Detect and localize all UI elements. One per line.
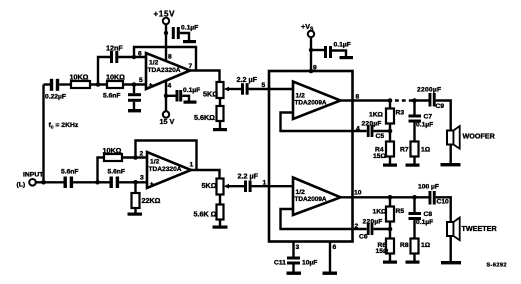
wire to pin 5 — [123, 83, 146, 85]
ground (C11) — [287, 272, 302, 275]
svg-text:5KΩ: 5KΩ — [202, 181, 217, 190]
svg-text:5.6nF: 5.6nF — [108, 169, 125, 176]
svg-text:TDA2009A: TDA2009A — [295, 196, 327, 203]
svg-text:1/2: 1/2 — [150, 159, 160, 166]
svg-text:9: 9 — [313, 65, 317, 72]
ground (22K) — [128, 213, 143, 216]
wire U2b output pin 10 — [341, 196, 429, 198]
junction dot pin3 node — [133, 180, 138, 185]
junction dot pin5 node — [132, 82, 137, 87]
wire output rail to C9 — [411, 99, 429, 101]
wire feedback U1b output to pin 2 — [136, 141, 197, 171]
svg-text:0.1µF: 0.1µF — [183, 87, 200, 94]
svg-text:1/2: 1/2 — [296, 93, 306, 100]
ground (R4) — [383, 164, 397, 167]
svg-text:5KΩ: 5KΩ — [203, 90, 218, 99]
svg-text:5.6nF: 5.6nF — [103, 93, 120, 100]
input terminal INPUT (L) — [17, 172, 45, 189]
ground (top-left bypass) — [183, 40, 196, 43]
svg-text:3: 3 — [140, 175, 144, 182]
junction dot on +15V rail — [164, 31, 168, 35]
svg-text:15 V: 15 V — [160, 117, 175, 126]
ground (woofer divider) — [213, 128, 227, 131]
ground (pin4 bypass) — [184, 101, 197, 104]
svg-text:3: 3 — [296, 244, 300, 251]
capacitor 12nF (low-pass feedback) — [98, 44, 146, 85]
wire U2a feedback to pin 4 — [281, 113, 367, 132]
svg-text:5: 5 — [262, 82, 266, 89]
resistor 10K (high-pass feedback) — [98, 146, 148, 182]
svg-text:1/2: 1/2 — [149, 60, 159, 67]
wire pin 3 to C11 — [292, 242, 294, 257]
resistor R7 1 ohm — [400, 142, 431, 164]
svg-text:8: 8 — [356, 94, 360, 101]
svg-text:R8: R8 — [400, 242, 409, 249]
junction dot pin 9 — [309, 69, 314, 74]
wire pin1 input to U2b — [269, 185, 293, 187]
svg-text:C7: C7 — [424, 114, 433, 121]
svg-text:S-6292: S-6292 — [487, 263, 507, 269]
wire tweeter to ground — [450, 236, 452, 261]
svg-text:WOOFER: WOOFER — [463, 132, 496, 141]
svg-text:0.1µF: 0.1µF — [181, 25, 198, 32]
svg-text:INPUT: INPUT — [23, 172, 44, 179]
svg-text:10µF: 10µF — [302, 260, 317, 267]
junction dot feedback node (tweeter) — [388, 227, 393, 232]
svg-text:1Ω: 1Ω — [421, 242, 431, 249]
capacitor C10 100uF — [418, 184, 449, 206]
wire dashed segment (output rail) — [395, 99, 412, 101]
svg-text:C11: C11 — [274, 260, 286, 267]
svg-text:2: 2 — [355, 223, 359, 230]
potentiometer 5K (woofer level) — [203, 82, 241, 99]
junction dot feedback node — [388, 129, 393, 134]
svg-text:5.6KΩ: 5.6KΩ — [194, 113, 215, 122]
ground (R7) — [406, 164, 420, 167]
svg-text:1: 1 — [190, 162, 194, 169]
ground (tweeter divider) — [213, 226, 228, 229]
wire U1 output to pot — [190, 71, 220, 83]
svg-text:C6: C6 — [359, 234, 368, 241]
resistor R3 1K — [369, 101, 404, 142]
svg-text:2.2 µF: 2.2 µF — [238, 172, 259, 181]
svg-text:1KΩ: 1KΩ — [369, 112, 384, 119]
supply terminal +15V — [154, 10, 176, 25]
junction dot input rail — [41, 180, 46, 185]
wire C10 to tweeter — [436, 197, 451, 222]
capacitor 0.22uF — [44, 79, 66, 101]
wire feedback U1 output to pin 6 — [134, 47, 196, 71]
op-amp U1 1/2 TDA2320A (low-pass) — [146, 53, 190, 89]
svg-text:2200µF: 2200µF — [417, 87, 441, 94]
supply terminal +Vs — [301, 22, 314, 37]
svg-text:100 µF: 100 µF — [418, 184, 439, 191]
svg-text:1Ω: 1Ω — [421, 147, 431, 154]
svg-text:C10: C10 — [437, 199, 450, 206]
svg-text:C9: C9 — [436, 103, 445, 110]
svg-text:1/2: 1/2 — [296, 189, 306, 196]
svg-text:12nF: 12nF — [106, 44, 123, 53]
ground (R8) — [406, 261, 420, 264]
svg-text:1: 1 — [263, 180, 267, 187]
wire node A — [73, 181, 109, 183]
wire input to 5.6nF — [36, 181, 64, 183]
ground (pin 6) — [323, 272, 338, 275]
junction dot R3 node — [388, 98, 393, 103]
potentiometer 5K (tweeter level) — [202, 179, 245, 195]
svg-text:220µF: 220µF — [362, 121, 382, 128]
capacitor C5 220uF — [362, 121, 391, 141]
svg-text:TDA2009A: TDA2009A — [295, 100, 327, 107]
wire to pin 3 — [119, 181, 147, 183]
capacitor 2.2uF (tweeter channel coupling) — [238, 172, 270, 193]
resistor R4 15 ohm — [373, 142, 394, 164]
junction dot +Vs rail — [309, 48, 313, 52]
svg-text:+: + — [150, 181, 154, 188]
svg-text:R7: R7 — [400, 147, 409, 154]
svg-text:4: 4 — [168, 83, 172, 90]
svg-text:6: 6 — [138, 51, 142, 58]
resistor 5.6K (tweeter divider) — [194, 195, 224, 226]
wire woofer to ground — [450, 145, 452, 164]
capacitor 5.6nF (first, high-pass) — [61, 169, 78, 189]
svg-text:2: 2 — [140, 151, 144, 158]
supply terminal 15V (negative rail) — [160, 111, 175, 126]
svg-text:5.6K Ω: 5.6K Ω — [194, 210, 217, 219]
svg-text:10KΩ: 10KΩ — [103, 146, 122, 155]
capacitor 5.6nF (second, high-pass) — [108, 169, 125, 189]
capacitor 5.6nF (low-pass to ground) — [103, 85, 141, 110]
svg-text:7: 7 — [189, 63, 193, 70]
svg-text:C5: C5 — [376, 133, 385, 140]
svg-text:TDA2320A: TDA2320A — [148, 67, 181, 74]
op-amp U1b 1/2 TDA2320A (high-pass) — [147, 152, 191, 188]
svg-text:0.1µF: 0.1µF — [416, 219, 433, 226]
resistor 5.6K (woofer divider) — [194, 98, 224, 128]
svg-text:6: 6 — [333, 244, 337, 251]
capacitor 0.1uF (pin4 bypass) — [166, 87, 200, 102]
svg-text:1KΩ: 1KΩ — [373, 209, 388, 216]
junction dot pin2 node — [133, 155, 138, 160]
capacitor C6 220uF — [359, 219, 390, 241]
resistor R5 1K — [373, 197, 405, 238]
ground (woofer) — [441, 163, 461, 166]
wire node B — [90, 83, 107, 85]
svg-text:0.1µF: 0.1µF — [416, 122, 433, 129]
svg-text:15Ω: 15Ω — [373, 153, 386, 160]
wire pin 6 to ground — [329, 242, 331, 272]
capacitor 0.1uF (+Vs bypass) — [311, 42, 351, 59]
resistor R6 15 ohm — [376, 239, 395, 261]
IC block TDA2009A outline — [269, 71, 353, 242]
junction dot node B — [96, 82, 101, 87]
resistor 22K — [132, 182, 161, 212]
op-amp U2b 1/2 TDA2009A (tweeter amp) — [293, 178, 341, 216]
svg-text:0.1µF: 0.1µF — [334, 42, 351, 49]
svg-text:C8: C8 — [424, 211, 433, 218]
junction dot C8 node — [412, 195, 417, 200]
junction dot pin6 node — [132, 55, 136, 59]
capacitor 2.2uF (woofer channel coupling) — [237, 75, 270, 95]
resistor R8 1 ohm — [400, 239, 431, 261]
svg-text:5: 5 — [139, 77, 143, 84]
svg-text:+: + — [149, 82, 153, 89]
svg-text:8: 8 — [168, 54, 172, 61]
wire C9 to woofer — [436, 101, 451, 131]
junction dot R5 node — [388, 195, 393, 200]
ground (R6) — [383, 261, 397, 264]
junction dot node A — [95, 180, 100, 185]
svg-text:4: 4 — [356, 125, 360, 132]
svg-text:R5: R5 — [396, 208, 405, 215]
svg-text:0.22µF: 0.22µF — [45, 94, 66, 101]
svg-text:10KΩ: 10KΩ — [70, 72, 89, 81]
capacitor C9 2200uF — [417, 87, 444, 111]
svg-text:10: 10 — [354, 190, 362, 197]
resistor 10K (second, low-pass) — [106, 72, 125, 88]
wire U2b feedback to pin 2 — [281, 209, 367, 229]
svg-text:22KΩ: 22KΩ — [142, 196, 161, 205]
svg-text:10KΩ: 10KΩ — [106, 72, 125, 81]
capacitor C11 10uF — [274, 257, 317, 272]
svg-text:2.2 µF: 2.2 µF — [237, 75, 258, 84]
ground (5.6nF low-pass) — [128, 109, 141, 112]
svg-text:220µF: 220µF — [363, 219, 383, 226]
wire pin5 input to U2a — [269, 88, 293, 90]
junction dot pin4 node — [164, 94, 168, 98]
wire +15V to pin 8 of U1 — [165, 24, 167, 60]
junction dot C7 node — [412, 98, 417, 103]
wire input rail to low-pass chain — [42, 85, 44, 183]
wire +Vs to pin 9 — [310, 37, 312, 71]
svg-text:TDA2320A: TDA2320A — [149, 166, 182, 173]
ground (tweeter) — [441, 261, 461, 264]
svg-text:TWEETER: TWEETER — [462, 224, 498, 233]
capacitor C7 0.1uF (Zobel) — [409, 101, 434, 142]
ground (+Vs bypass) — [340, 56, 354, 59]
tweeter speaker — [447, 218, 497, 241]
svg-text:5.6nF: 5.6nF — [61, 169, 78, 176]
wire U1b output to pot — [191, 170, 220, 179]
resistor 10K (first, low-pass) — [59, 72, 90, 88]
svg-text:R3: R3 — [396, 110, 405, 117]
capacitor 0.1uF (top-left bypass) — [172, 25, 198, 41]
svg-text:(L): (L) — [17, 182, 26, 189]
wire pin 4 to -15V — [165, 81, 167, 112]
svg-text:15Ω: 15Ω — [376, 248, 389, 255]
woofer speaker — [447, 126, 496, 149]
capacitor C8 0.1uF (Zobel tweeter) — [409, 197, 434, 238]
wire U2a output pin 8 — [341, 99, 393, 101]
op-amp U2a 1/2 TDA2009A (woofer amp) — [293, 82, 341, 120]
